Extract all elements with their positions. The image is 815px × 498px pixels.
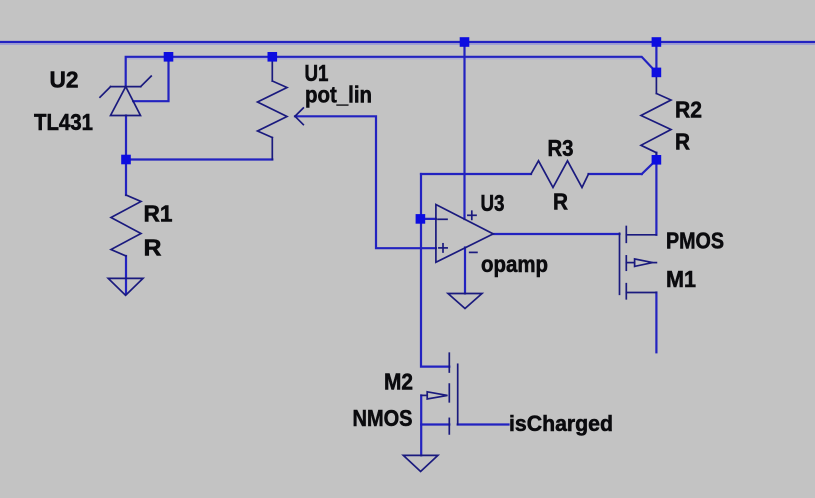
svg-text:isCharged: isCharged: [509, 411, 613, 436]
svg-text:opamp: opamp: [481, 251, 548, 277]
svg-text:R2: R2: [675, 97, 702, 123]
svg-text:U3: U3: [481, 190, 505, 216]
svg-text:PMOS: PMOS: [666, 228, 724, 254]
svg-text:R: R: [675, 129, 690, 155]
svg-text:NMOS: NMOS: [353, 405, 413, 431]
svg-text:R3: R3: [548, 135, 574, 161]
svg-text:U2: U2: [50, 67, 79, 93]
svg-text:TL431: TL431: [34, 109, 93, 135]
svg-text:M1: M1: [666, 266, 696, 292]
svg-text:M2: M2: [384, 369, 413, 395]
svg-text:pot_lin: pot_lin: [305, 82, 372, 108]
svg-text:R: R: [553, 189, 568, 215]
svg-text:R1: R1: [144, 201, 173, 227]
svg-text:R: R: [144, 235, 162, 261]
